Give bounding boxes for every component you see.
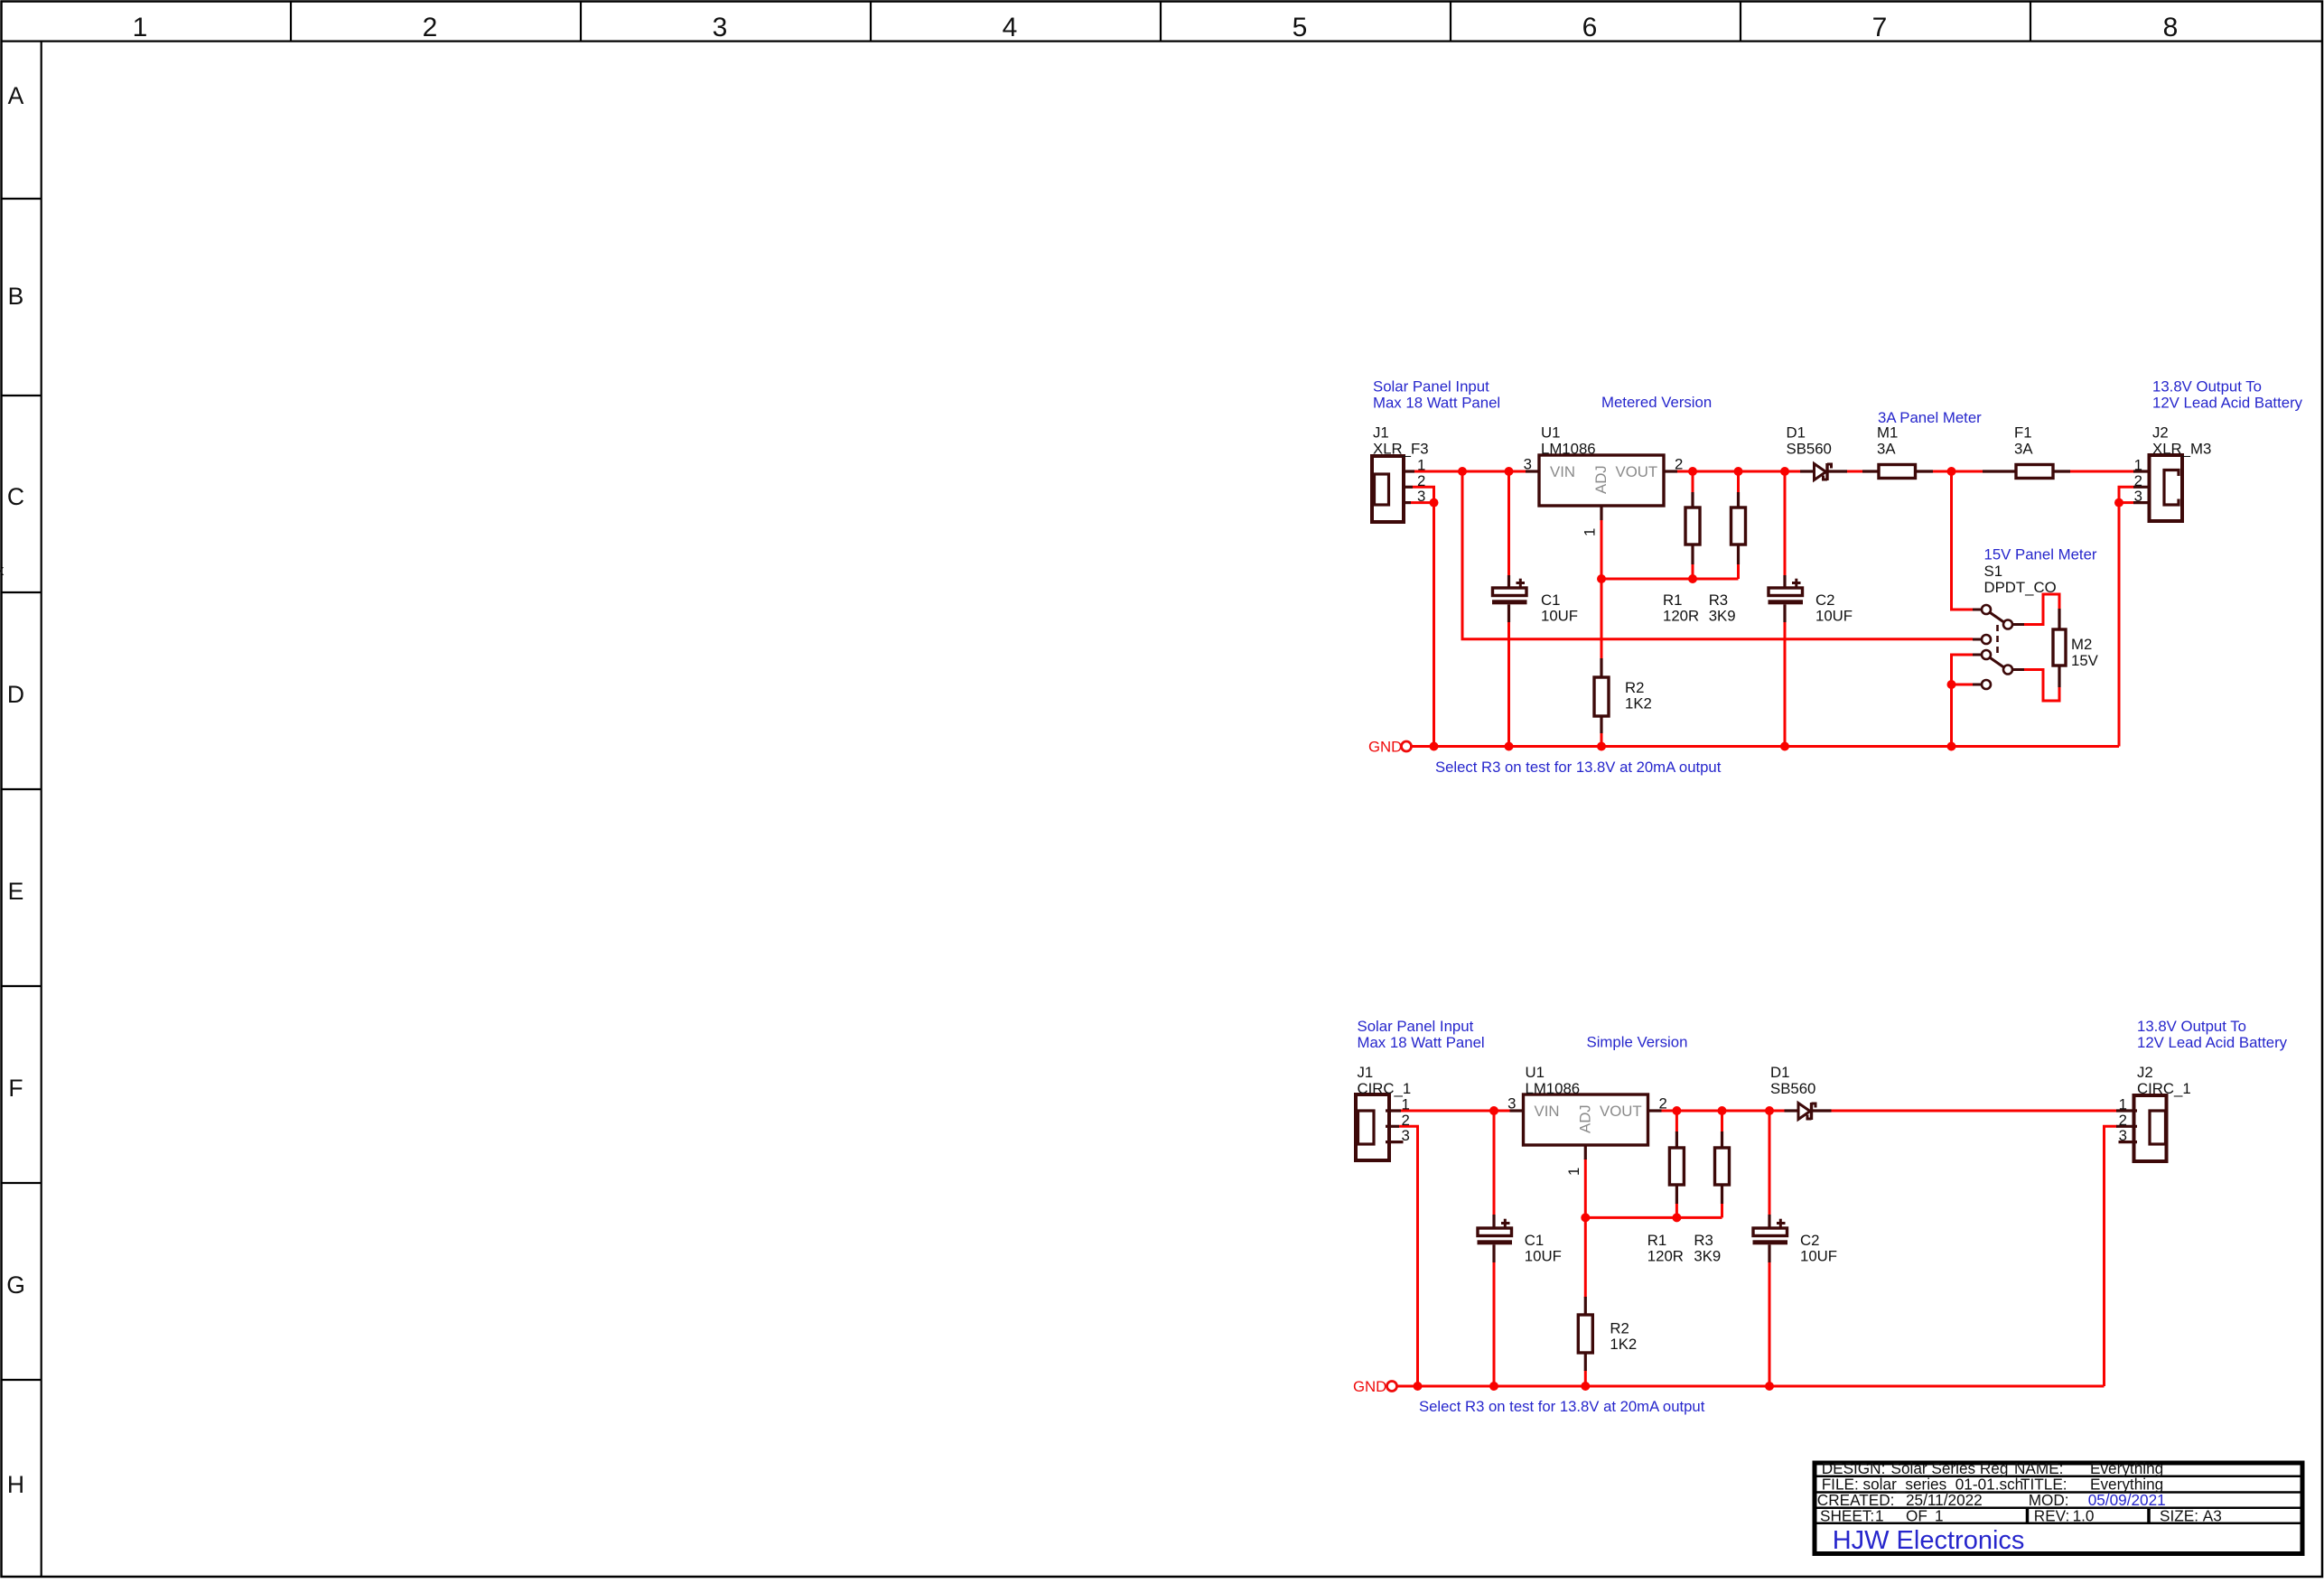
wire M1 to F1 segment — [1932, 470, 1983, 473]
svg-text:S1: S1 — [1984, 563, 2003, 580]
svg-text:10UF: 10UF — [1525, 1248, 1562, 1265]
wire C2 top drop (simple) — [1769, 1111, 1771, 1215]
wire ADJ horizontal to R3 (simple) — [1585, 1216, 1722, 1219]
svg-text:2: 2 — [2119, 1112, 2127, 1129]
wire S1 ground throw stub — [1952, 684, 1974, 686]
svg-text:M2: M2 — [2071, 636, 2092, 653]
svg-text:2: 2 — [1417, 472, 1425, 489]
frame column divider 4|5 — [1160, 2, 1162, 42]
frame row divider A|B — [2, 198, 42, 200]
svg-text:120R: 120R — [1647, 1248, 1684, 1265]
svg-text:REV:: REV: — [2034, 1507, 2069, 1525]
capacitor C1 (metered) — [1492, 575, 1527, 622]
svg-text:SB560: SB560 — [1770, 1080, 1815, 1097]
resistor R1 (metered) — [1685, 492, 1700, 564]
svg-text:10UF: 10UF — [1815, 608, 1853, 625]
svg-text:XLR_M3: XLR_M3 — [2152, 441, 2211, 458]
svg-text:Solar Panel Input: Solar Panel Input — [1373, 378, 1489, 396]
wire input sense drop to switch line — [1462, 471, 1973, 639]
svg-text:H: H — [7, 1471, 24, 1498]
wire S1 common A to M2 plus — [2024, 594, 2059, 625]
svg-text:DPDT_CO: DPDT_CO — [1984, 579, 2057, 596]
svg-text:R2: R2 — [1610, 1320, 1629, 1337]
svg-text:3: 3 — [713, 13, 728, 42]
svg-text:R3: R3 — [1709, 591, 1728, 609]
svg-text:3: 3 — [2134, 488, 2142, 505]
svg-text:13.8V Output To: 13.8V Output To — [2152, 378, 2262, 396]
svg-text:1: 1 — [2134, 457, 2142, 474]
svg-text:Metered Version: Metered Version — [1601, 394, 1712, 411]
wire ADJ horizontal to R3 — [1601, 578, 1739, 581]
svg-text:A: A — [8, 82, 24, 109]
capacitor C2 (simple) — [1753, 1215, 1788, 1262]
wire U1.VOUT output — [1677, 470, 1800, 473]
svg-text:1: 1 — [1417, 457, 1425, 474]
svg-text:R2: R2 — [1625, 679, 1644, 696]
svg-text:1: 1 — [133, 13, 148, 42]
svg-text:OF: OF — [1906, 1507, 1927, 1525]
svg-text:6: 6 — [1582, 13, 1598, 42]
svg-text:LM1086: LM1086 — [1526, 1080, 1581, 1097]
svg-text:HJW Electronics: HJW Electronics — [1833, 1526, 2025, 1555]
wire GND rail (metered) — [1412, 745, 2120, 748]
meter M2 15V — [2053, 609, 2066, 687]
svg-text:U1: U1 — [1526, 1064, 1545, 1081]
svg-text:3A: 3A — [1877, 441, 1896, 458]
svg-text:C2: C2 — [1815, 591, 1834, 609]
svg-text:7: 7 — [1872, 13, 1888, 42]
wire J2.3 stub — [2119, 501, 2133, 504]
wire J1.2 corner to J1.3 node — [1413, 487, 1434, 502]
wire S1 common B to M2 minus — [2024, 670, 2059, 702]
wire U1.ADJ vertical — [1601, 519, 1603, 658]
svg-text:10UF: 10UF — [1541, 608, 1578, 625]
svg-text:Max 18 Watt Panel: Max 18 Watt Panel — [1358, 1034, 1485, 1051]
svg-text:120R: 120R — [1663, 608, 1699, 625]
wire J1.1 to U1.VIN — [1414, 470, 1526, 473]
wire D1 to J2.1 (simple) — [1831, 1110, 2117, 1113]
svg-text:VIN: VIN — [1550, 463, 1575, 480]
fuse F1 3A — [1983, 465, 2070, 479]
svg-text:2: 2 — [2134, 472, 2142, 489]
svg-text:13.8V Output To: 13.8V Output To — [2137, 1018, 2246, 1035]
svg-text:G: G — [6, 1271, 25, 1299]
regulator U1 LM1086 (metered) — [1526, 455, 1677, 520]
svg-text:2: 2 — [1402, 1112, 1410, 1129]
resistor R2 (metered) — [1594, 658, 1609, 733]
svg-text:Select R3 on test for 13.8V at: Select R3 on test for 13.8V at 20mA outp… — [1419, 1398, 1705, 1415]
wire R1 top stub — [1692, 471, 1694, 493]
frame column divider 5|6 — [1450, 2, 1451, 42]
capacitor C2 (metered) — [1769, 575, 1804, 622]
svg-text:3A: 3A — [2014, 441, 2033, 458]
svg-text:1: 1 — [1935, 1507, 1944, 1525]
wire D1 to M1 segment — [1846, 470, 1863, 473]
svg-text:Max 18 Watt Panel: Max 18 Watt Panel — [1373, 395, 1500, 412]
wire R1 bottom stub — [1692, 563, 1694, 579]
svg-text:C: C — [7, 483, 24, 510]
svg-text:C1: C1 — [1541, 591, 1560, 609]
svg-text:VOUT: VOUT — [1600, 1103, 1642, 1120]
svg-text:CIRC_1: CIRC_1 — [1358, 1080, 1412, 1097]
resistor R2 (simple) — [1578, 1297, 1592, 1371]
frame row divider D|E — [2, 788, 42, 790]
svg-text:U1: U1 — [1541, 424, 1560, 442]
wire R3 top stub — [1737, 471, 1740, 493]
svg-text:E: E — [8, 878, 24, 905]
wire output sense drop to S1 throw A — [1952, 471, 1974, 610]
wire R2 bottom stub (simple) — [1584, 1370, 1587, 1386]
svg-text:1: 1 — [2119, 1096, 2127, 1113]
svg-text:1K2: 1K2 — [1625, 695, 1652, 712]
wire GND rail (simple) — [1397, 1385, 2105, 1388]
wire C2 bottom drop — [1784, 622, 1787, 747]
svg-text:5: 5 — [1293, 13, 1308, 42]
svg-text:Simple Version: Simple Version — [1587, 1034, 1688, 1051]
svg-text:1.0: 1.0 — [2073, 1507, 2095, 1525]
svg-text:SHEET:: SHEET: — [1820, 1507, 1874, 1525]
wire C2 top drop — [1784, 471, 1787, 576]
wire C2 bottom drop (simple) — [1769, 1262, 1771, 1386]
wire U1.ADJ vertical (simple) — [1584, 1159, 1587, 1298]
svg-text:3: 3 — [1507, 1095, 1516, 1113]
ground GND (simple) — [1387, 1382, 1397, 1392]
wire J2 ground riser (simple) — [2105, 1126, 2118, 1386]
svg-text:15V Panel Meter: 15V Panel Meter — [1984, 546, 2097, 563]
svg-text:C2: C2 — [1800, 1232, 1819, 1249]
svg-text:VOUT: VOUT — [1616, 463, 1658, 480]
svg-text:3: 3 — [1524, 456, 1532, 473]
frame column divider 3|4 — [870, 2, 872, 42]
svg-text:A3: A3 — [2203, 1507, 2222, 1525]
svg-text:15V: 15V — [2071, 652, 2099, 669]
frame row divider F|G — [2, 1182, 42, 1184]
connector J2 XLR_M3 — [2133, 455, 2182, 521]
title block — [1815, 1463, 2302, 1554]
junction dots (simple) — [1414, 1106, 1775, 1391]
wire J1.3 stub to node — [1411, 501, 1434, 504]
wire C1 bottom drop — [1507, 622, 1510, 747]
svg-text:VIN: VIN — [1535, 1103, 1560, 1120]
wire R3 bottom stub (simple) — [1721, 1203, 1723, 1217]
svg-text:3: 3 — [2119, 1127, 2127, 1144]
regulator U1 LM1086 (simple) — [1510, 1094, 1662, 1159]
svg-text:ADJ: ADJ — [1592, 465, 1610, 494]
wire R1 top stub (simple) — [1675, 1111, 1678, 1132]
svg-text:1: 1 — [1565, 1168, 1582, 1176]
svg-text:1: 1 — [1582, 528, 1599, 536]
switch S1 DPDT_CO — [1973, 605, 2024, 689]
wire R1 bottom stub (simple) — [1675, 1203, 1678, 1217]
frame row divider B|C — [2, 395, 42, 396]
svg-text:LM1086: LM1086 — [1541, 441, 1596, 458]
svg-text:B: B — [8, 283, 24, 310]
svg-text:2: 2 — [423, 13, 438, 42]
svg-text:2: 2 — [1659, 1095, 1667, 1113]
svg-text:D1: D1 — [1770, 1064, 1789, 1081]
svg-text:J1: J1 — [1358, 1064, 1374, 1081]
svg-text:Solar Panel Input: Solar Panel Input — [1358, 1018, 1474, 1035]
svg-text:C1: C1 — [1525, 1232, 1544, 1249]
ground GND (metered) — [1402, 741, 1412, 751]
svg-text:3: 3 — [1402, 1127, 1410, 1144]
frame row divider G|H — [2, 1379, 42, 1381]
svg-text:3K9: 3K9 — [1709, 608, 1736, 625]
wire C1 top drop — [1507, 471, 1510, 576]
svg-text:M1: M1 — [1877, 424, 1898, 442]
svg-text:1: 1 — [1402, 1096, 1410, 1113]
svg-text:CIRC_1: CIRC_1 — [2137, 1080, 2191, 1097]
svg-text:4: 4 — [1003, 13, 1018, 42]
svg-text:Select R3 on test for 13.8V at: Select R3 on test for 13.8V at 20mA outp… — [1435, 759, 1722, 776]
wire J2 ground riser — [2119, 487, 2133, 746]
capacitor C1 (simple) — [1478, 1215, 1513, 1262]
wire C1 top drop (simple) — [1493, 1111, 1496, 1215]
frame column divider 7|8 — [2030, 2, 2031, 42]
svg-text:F: F — [8, 1075, 23, 1102]
svg-text:05/09/2021: 05/09/2021 — [2088, 1491, 2166, 1509]
svg-text:R3: R3 — [1694, 1232, 1713, 1249]
svg-text:XLR_F3: XLR_F3 — [1373, 441, 1429, 458]
svg-text:R1: R1 — [1647, 1232, 1666, 1249]
connector J1 CIRC_1 (simple) — [1356, 1094, 1404, 1160]
svg-text:D1: D1 — [1787, 424, 1806, 442]
svg-text:GND: GND — [1353, 1378, 1386, 1395]
svg-text:F1: F1 — [2014, 424, 2032, 442]
diode D1 SB560 (simple) — [1785, 1103, 1832, 1120]
svg-text:1: 1 — [1875, 1507, 1884, 1525]
frame column divider 1|2 — [290, 2, 292, 42]
svg-text:3K9: 3K9 — [1694, 1248, 1721, 1265]
svg-text:J2: J2 — [2152, 424, 2169, 442]
svg-text:1K2: 1K2 — [1610, 1336, 1637, 1353]
connector J1 XLR_F3 — [1372, 456, 1414, 522]
svg-text:12V Lead Acid Battery: 12V Lead Acid Battery — [2137, 1034, 2288, 1051]
wire R3 top stub (simple) — [1721, 1111, 1723, 1132]
wire J1 ground drop — [1433, 503, 1435, 747]
frame column divider 6|7 — [1740, 2, 1741, 42]
svg-text:J2: J2 — [2137, 1064, 2153, 1081]
diode D1 SB560 (metered) — [1800, 463, 1847, 480]
wire J1.1 to U1.VIN (simple) — [1401, 1110, 1510, 1113]
resistor R3 (simple) — [1715, 1131, 1730, 1204]
frame column divider 2|3 — [580, 2, 582, 42]
wire U1.VOUT output (simple) — [1662, 1110, 1785, 1113]
resistor R1 (simple) — [1669, 1131, 1684, 1204]
svg-text:SIZE:: SIZE: — [2160, 1507, 2198, 1525]
svg-text:D: D — [7, 681, 24, 708]
svg-text:x: x — [0, 562, 5, 579]
resistor R3 (metered) — [1731, 492, 1746, 564]
wire C1 bottom drop (simple) — [1493, 1262, 1496, 1386]
svg-text:J1: J1 — [1373, 424, 1389, 442]
svg-text:SB560: SB560 — [1787, 441, 1832, 458]
svg-text:ADJ: ADJ — [1577, 1104, 1594, 1133]
wire F1 to J2.1 — [2070, 470, 2135, 473]
wire R2 bottom stub — [1601, 732, 1603, 747]
meter M1 3A — [1862, 465, 1933, 479]
svg-text:3: 3 — [1417, 488, 1425, 505]
wire J1.2 ground drop (simple) — [1399, 1126, 1418, 1386]
frame row divider E|F — [2, 985, 42, 987]
svg-text:12V Lead Acid Battery: 12V Lead Acid Battery — [2152, 395, 2303, 412]
junction dots (metered) — [1430, 467, 2124, 751]
svg-text:R1: R1 — [1663, 591, 1682, 609]
svg-text:2: 2 — [1675, 456, 1683, 473]
svg-text:8: 8 — [2163, 13, 2179, 42]
connector J2 CIRC_1 (simple) — [2116, 1095, 2167, 1161]
svg-text:10UF: 10UF — [1800, 1248, 1837, 1265]
svg-text:GND: GND — [1368, 739, 1402, 756]
wire S1 lower pole feed — [1952, 655, 1974, 747]
frame row divider C|D — [2, 591, 42, 593]
wire R3 bottom stub — [1737, 563, 1740, 579]
